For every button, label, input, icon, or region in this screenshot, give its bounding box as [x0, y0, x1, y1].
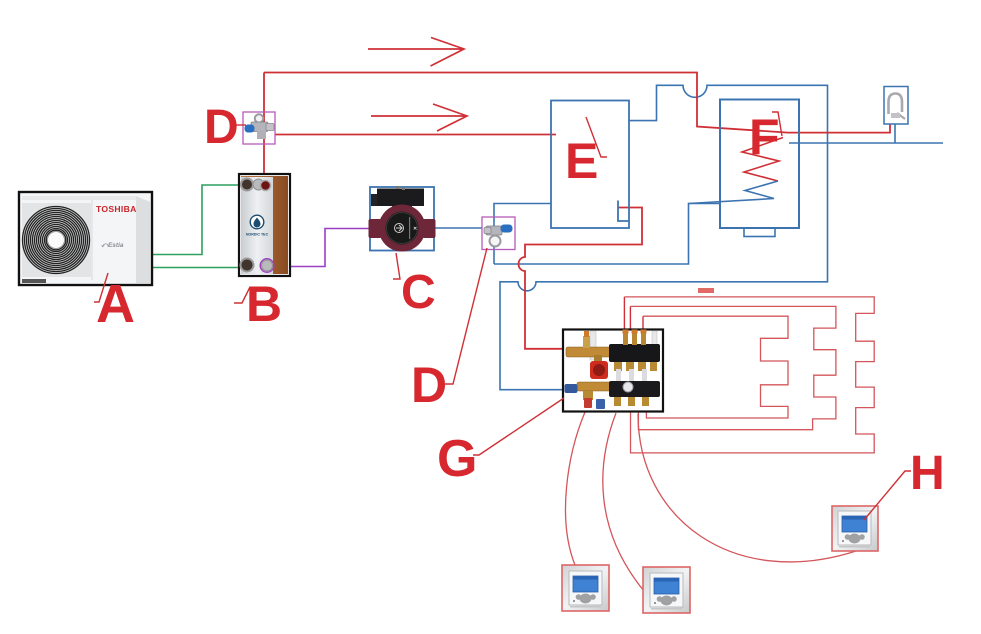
svg-text:C: C [401, 266, 436, 319]
svg-text:G: G [437, 430, 477, 488]
svg-text:TOSHIBA: TOSHIBA [96, 204, 137, 214]
svg-text:D: D [204, 101, 239, 154]
svg-text:H: H [910, 447, 945, 500]
svg-text:E: E [565, 133, 598, 189]
svg-text:✕: ✕ [413, 226, 417, 232]
svg-text:B: B [246, 276, 282, 332]
svg-text:NORDIC TEC: NORDIC TEC [246, 233, 269, 237]
svg-text:D: D [411, 357, 447, 413]
svg-text:F: F [749, 109, 780, 165]
svg-text:⤺Estia: ⤺Estia [101, 242, 124, 249]
svg-text:A: A [96, 274, 135, 334]
